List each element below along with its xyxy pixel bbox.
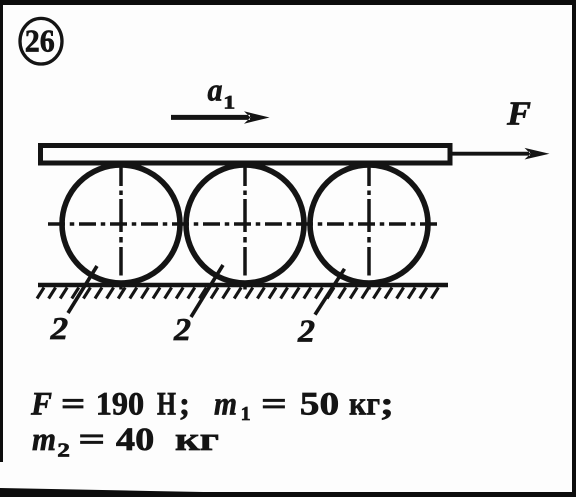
svg-text:2: 2 — [297, 313, 315, 349]
svg-text:26: 26 — [25, 23, 55, 59]
svg-text:m: m — [214, 387, 237, 423]
svg-text:2: 2 — [57, 440, 70, 462]
svg-text:190: 190 — [96, 387, 145, 423]
svg-text:Н: Н — [157, 387, 176, 423]
svg-text:кг: кг — [349, 387, 380, 423]
svg-text:2: 2 — [173, 311, 191, 347]
svg-text:F: F — [506, 96, 531, 133]
svg-text:1: 1 — [241, 403, 251, 425]
svg-text:;: ; — [380, 387, 394, 423]
svg-text:m: m — [32, 422, 56, 458]
svg-text:40: 40 — [116, 422, 154, 458]
svg-text:F: F — [30, 387, 52, 423]
svg-text:2: 2 — [50, 310, 69, 346]
svg-text:=: = — [261, 387, 287, 423]
svg-text:1: 1 — [223, 93, 235, 114]
svg-text:=: = — [78, 422, 105, 458]
svg-text:50: 50 — [300, 387, 339, 423]
svg-text:;: ; — [179, 387, 190, 423]
svg-text:кг: кг — [175, 422, 219, 458]
svg-text:a: a — [208, 72, 223, 108]
svg-text:=: = — [61, 387, 86, 423]
